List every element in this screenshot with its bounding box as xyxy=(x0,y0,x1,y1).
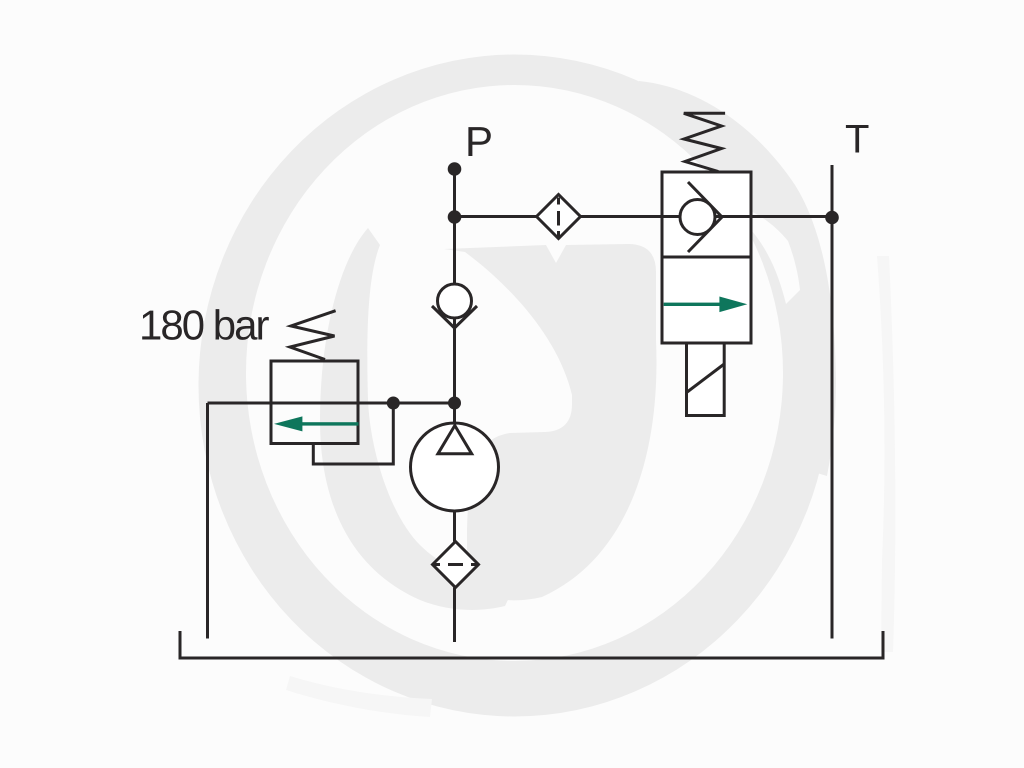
wire P vertical xyxy=(453,169,456,426)
check valve V1 circle xyxy=(438,284,472,318)
node T dot xyxy=(825,211,839,225)
orifice diamond xyxy=(537,195,581,239)
node relief dot B xyxy=(448,397,461,410)
faint outer swoosh right xyxy=(877,256,895,652)
label 180 bar xyxy=(142,309,269,340)
valve U1 line through xyxy=(662,215,751,218)
label T xyxy=(846,125,869,153)
tank line xyxy=(180,631,883,658)
valve U1 check seat xyxy=(688,182,722,252)
valve U1 spring xyxy=(684,113,725,171)
label P xyxy=(468,127,490,156)
valve U1 top square xyxy=(662,172,751,257)
wire relief horizontal xyxy=(208,402,455,405)
green arrow right (valve U1) xyxy=(664,297,748,313)
valve U1 bottom square xyxy=(662,257,751,343)
wire T vertical xyxy=(831,165,834,639)
check valve V1 seat xyxy=(432,306,477,328)
node P dot xyxy=(448,162,462,176)
inner glyph left arm xyxy=(320,228,515,610)
wire pump to filter xyxy=(453,511,456,542)
relief valve R1 square xyxy=(271,361,358,444)
solenoid diagonal xyxy=(687,364,725,393)
ring xyxy=(199,55,831,717)
wire filter to tank xyxy=(453,588,456,643)
node junction dot xyxy=(448,210,462,224)
watermark G logo xyxy=(199,55,896,718)
relief valve spring xyxy=(290,311,336,360)
filter diamond xyxy=(433,542,479,588)
solenoid xyxy=(687,343,725,416)
faint outer swoosh bottom left xyxy=(286,676,432,717)
wire main horizontal P to T xyxy=(455,215,833,218)
node relief dot A xyxy=(387,397,400,410)
ring inner white correction xyxy=(700,193,800,304)
wire pilot loop xyxy=(313,403,393,464)
filter dashes xyxy=(434,563,477,566)
ring bulge upper right xyxy=(638,81,836,476)
pump triangle xyxy=(438,426,472,454)
orifice dashed line xyxy=(557,198,560,238)
valve U1 check circle xyxy=(680,200,715,235)
pump circle xyxy=(411,423,499,511)
inner glyph slab xyxy=(444,244,656,600)
wire left drain down xyxy=(206,403,209,639)
green arrow left (relief) xyxy=(274,416,359,431)
